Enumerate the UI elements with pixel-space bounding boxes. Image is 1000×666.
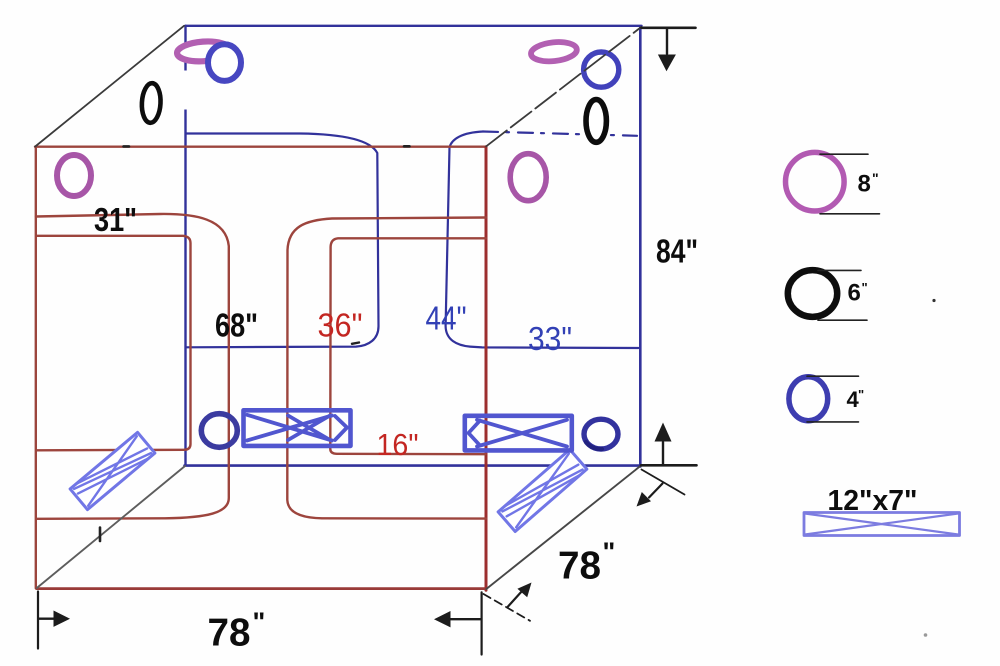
port ellipse purple right face (510, 154, 546, 201)
port ellipse blue top-left (208, 44, 241, 81)
vent X-box left (244, 410, 351, 446)
port ellipse purple top-left (176, 40, 230, 63)
svg-text:16": 16" (377, 427, 419, 462)
port ellipse black top-left (141, 83, 162, 124)
78 depth dim extension at back corner (642, 470, 685, 495)
svg-text:78: 78 (208, 612, 251, 655)
svg-text:84": 84" (656, 233, 698, 270)
back right door hidden top (dashed) (483, 132, 637, 136)
svg-text:": " (872, 170, 879, 186)
legend circle 6in (788, 270, 837, 317)
svg-text:": " (603, 537, 616, 567)
port ellipse black top-right (586, 100, 606, 143)
svg-text:": " (253, 607, 266, 637)
svg-text:": " (858, 387, 864, 402)
78 width dim right extension (481, 592, 483, 654)
78 depth arrow down-left (649, 484, 663, 498)
78 width arrow left (450, 618, 481, 620)
box diagonal bottom-left (37, 466, 185, 588)
dash artifact on top edge (124, 145, 410, 148)
svg-text:31": 31" (94, 201, 137, 238)
svg-text:78: 78 (558, 545, 601, 588)
dash artifact near 33 line (352, 343, 359, 344)
78 depth dim extension at front corner (dashed) (484, 594, 531, 621)
tick on bottom-left diagonal (99, 528, 102, 542)
svg-text:": " (862, 280, 868, 295)
78 width arrow right (39, 618, 54, 620)
box diagonal top-right (486, 27, 641, 146)
box diagonal top-left (35, 26, 184, 147)
duct vent tilted right (498, 450, 587, 532)
vent circle blue left (201, 414, 237, 448)
front box top edge (35, 145, 486, 147)
port circle blue top-right (584, 52, 619, 87)
front box left edge (35, 147, 37, 589)
vent X-box right (465, 416, 572, 451)
stray dot right (932, 299, 935, 302)
back left door (186, 134, 379, 348)
back right door vertical (446, 148, 639, 349)
legend circle 4in (789, 377, 828, 421)
back box left edge (184, 26, 186, 466)
front box right edge (485, 147, 488, 591)
78 width dim left extension (37, 592, 39, 649)
legend duct 12x7 (804, 513, 960, 536)
svg-text:36": 36" (318, 307, 363, 344)
legend circle 8in (786, 152, 845, 211)
duct vent tilted left (70, 432, 155, 509)
port ellipse purple top-right (530, 40, 578, 64)
stray dot bottom right (924, 633, 928, 637)
84 dim down arrow (666, 29, 668, 54)
front right door outer (287, 218, 486, 519)
back box top edge (186, 25, 642, 27)
box diagonal bottom-right (486, 466, 640, 589)
port circle purple left face (57, 155, 91, 196)
svg-text:44": 44" (426, 300, 467, 337)
84 dim top extension line (642, 26, 696, 29)
back right door top curve (450, 132, 484, 148)
front box bottom edge (37, 587, 485, 590)
front right door inner (330, 238, 486, 454)
svg-text:33": 33" (528, 320, 572, 357)
front left door inner (37, 236, 191, 450)
back box bottom edge (185, 464, 641, 467)
back box right edge (639, 27, 642, 467)
svg-text:12"x7": 12"x7" (828, 485, 918, 517)
svg-text:68": 68" (215, 307, 258, 344)
front left door outer (36, 214, 229, 519)
svg-text:8: 8 (858, 171, 871, 198)
78 depth arrow up-right (508, 591, 523, 607)
white scan smudge over back-left edge (180, 71, 191, 110)
svg-text:6: 6 (848, 280, 861, 307)
84 dim bottom extension line (641, 464, 697, 467)
84 dim up arrow (662, 442, 664, 465)
vent circle blue right (584, 419, 618, 449)
